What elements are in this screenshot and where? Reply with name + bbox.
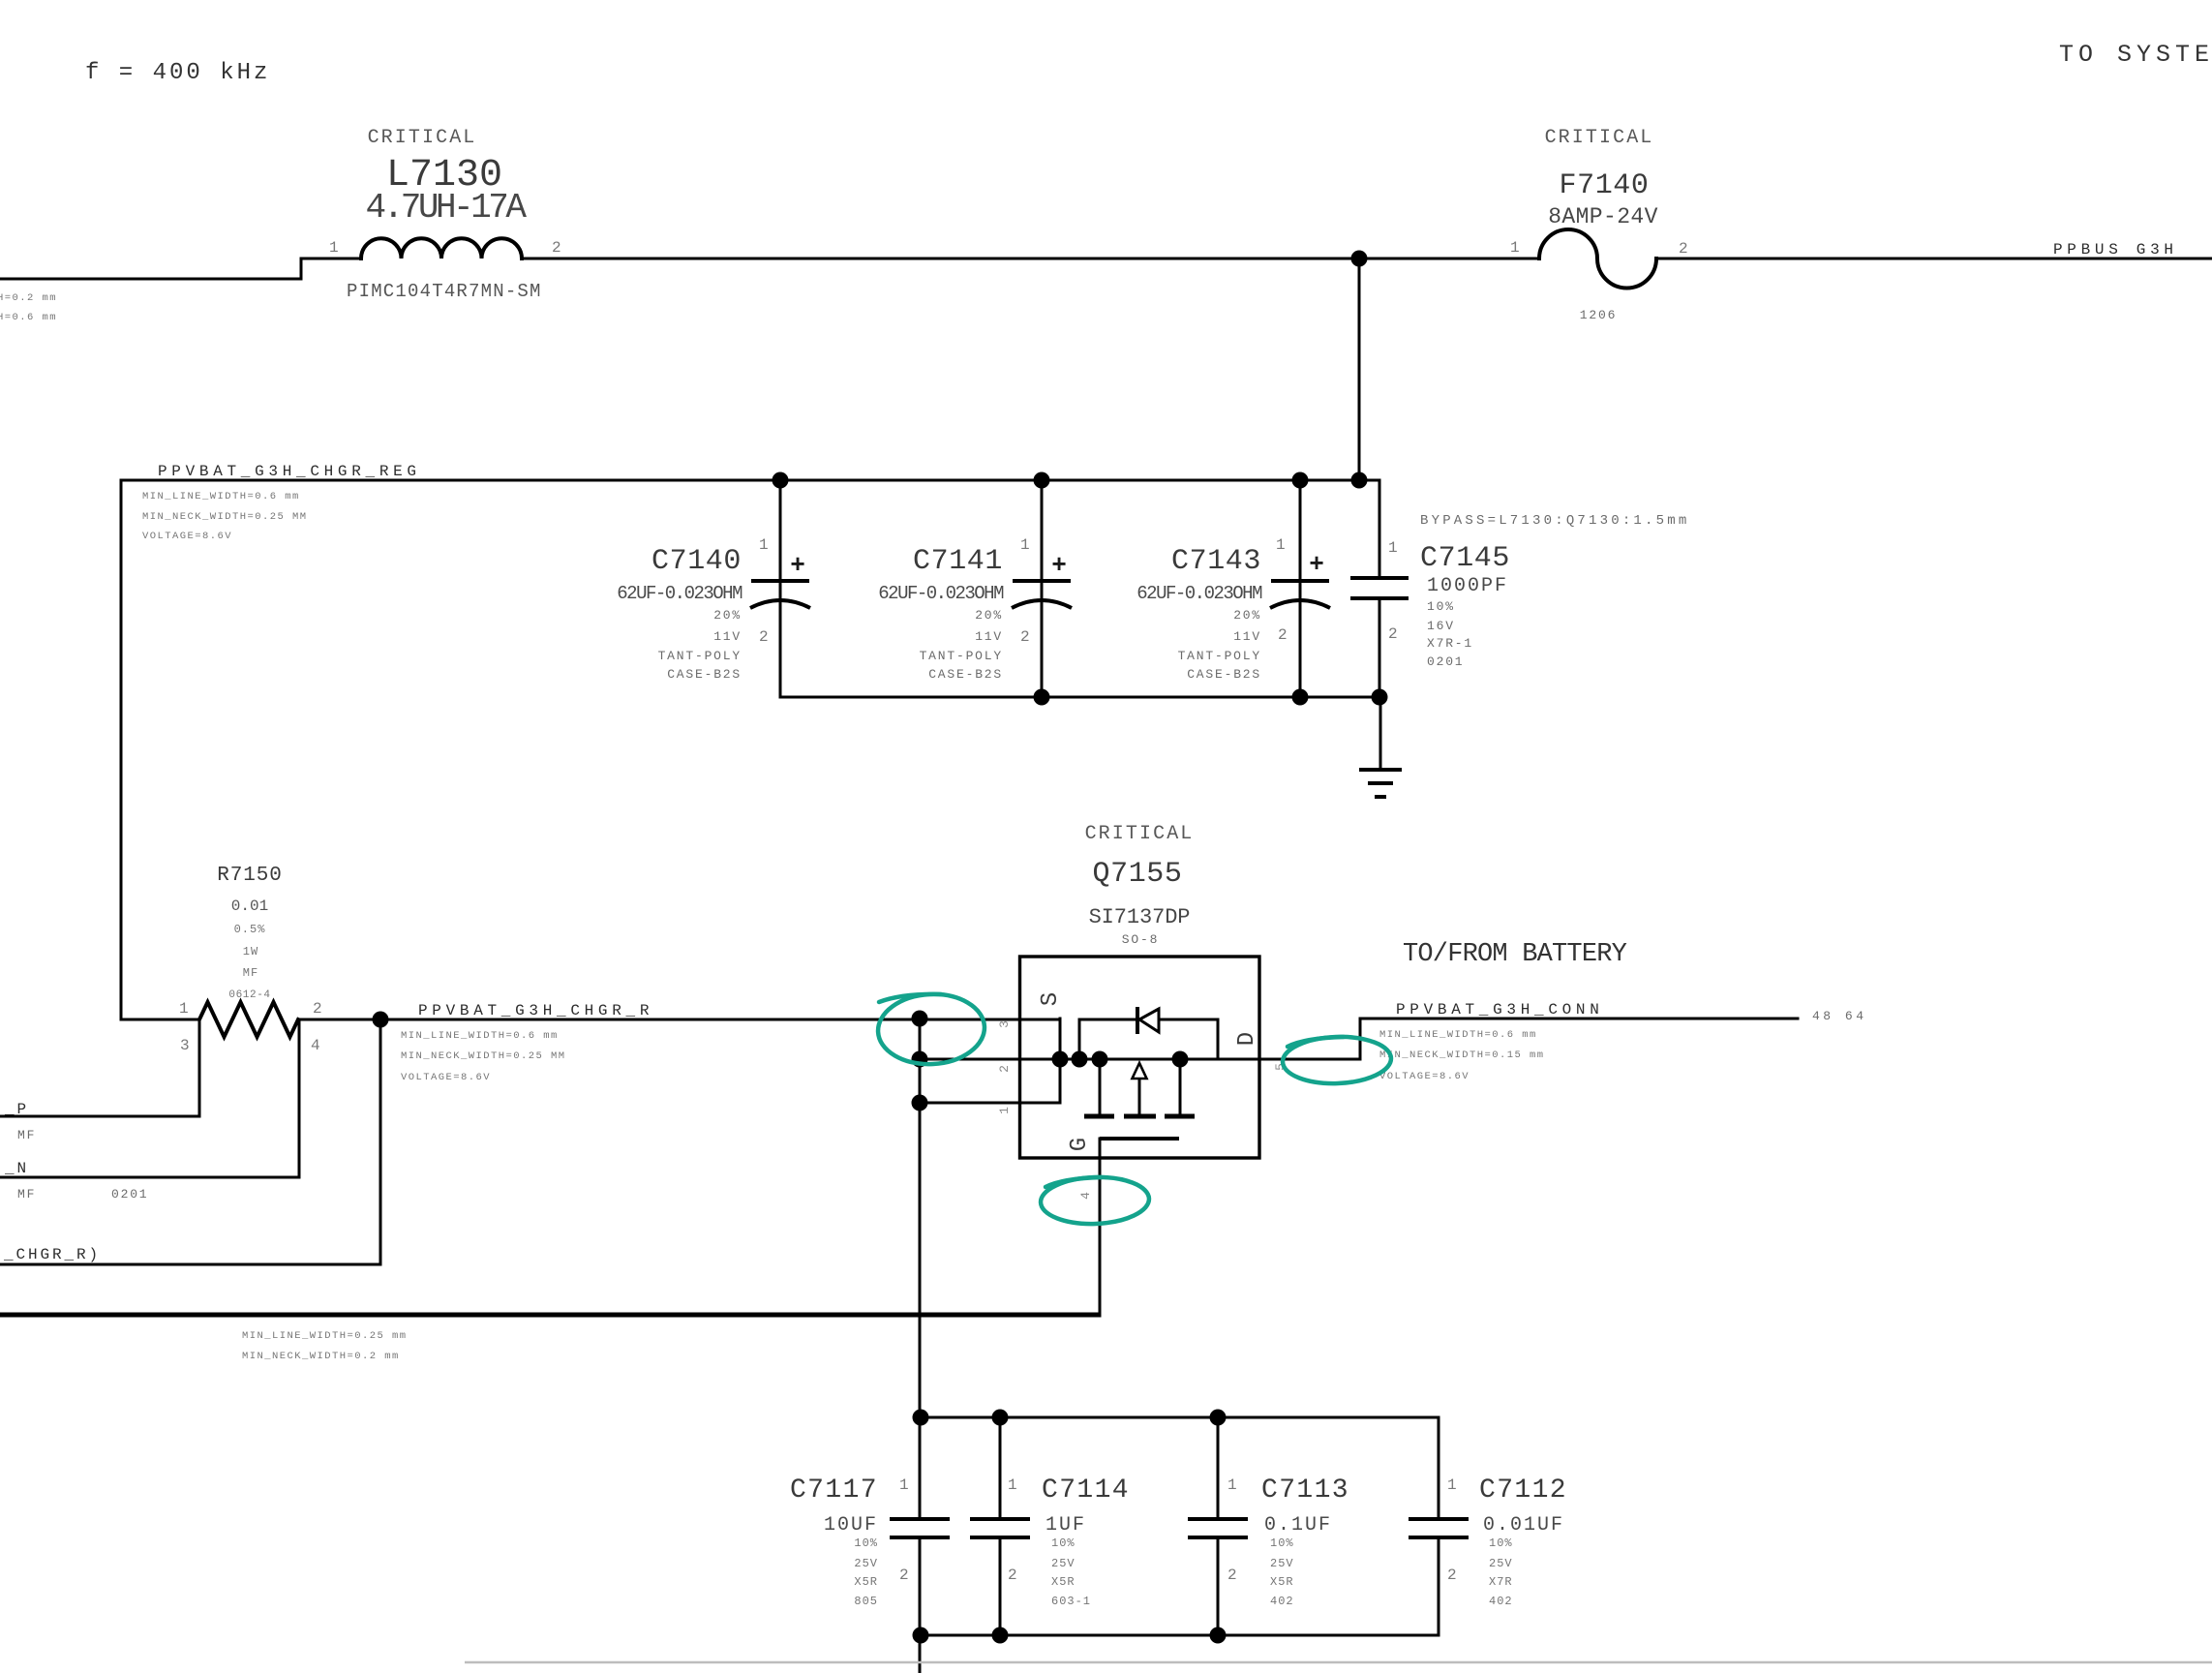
svg-text:402: 402	[1489, 1595, 1513, 1608]
svg-text:11V: 11V	[1233, 629, 1261, 644]
junction bottom bus C7114	[992, 1627, 1009, 1644]
svg-text:1: 1	[1276, 536, 1286, 554]
svg-text:TANT-POLY: TANT-POLY	[1178, 649, 1261, 663]
R7150 pin 2	[313, 1000, 322, 1018]
F7140 pin 1	[1510, 239, 1520, 257]
net label _P (cut off)	[4, 1101, 29, 1118]
C7113 value block	[1264, 1514, 1332, 1608]
wire: left input to L7130 pin 1	[0, 259, 361, 279]
svg-text:CASE-B2S: CASE-B2S	[667, 667, 742, 682]
svg-text:C7140: C7140	[651, 545, 742, 578]
svg-text:0612-4: 0612-4	[228, 989, 270, 1001]
R7150 pin 1	[179, 1000, 189, 1018]
svg-text:VOLTAGE=8.6V: VOLTAGE=8.6V	[1379, 1071, 1470, 1082]
C7141 value block	[878, 583, 1004, 682]
L7130 pin 2	[552, 239, 561, 257]
wire: thick gate net to left edge	[0, 1313, 1100, 1318]
svg-text:2: 2	[899, 1567, 909, 1584]
svg-text:10%: 10%	[1427, 599, 1455, 614]
F7140 footprint 1206	[1580, 308, 1617, 322]
svg-text:BYPASS=L7130:Q7130:1.5mm: BYPASS=L7130:Q7130:1.5mm	[1420, 513, 1689, 529]
svg-text:4: 4	[311, 1037, 320, 1054]
svg-text:603-1: 603-1	[1051, 1595, 1091, 1608]
wire: F7140 pin 2 to PPBUS_G3H off-page	[1656, 258, 2212, 260]
C7117 pin 2	[899, 1567, 909, 1584]
Q7155 body diode symbol	[1137, 1007, 1159, 1034]
C7113 pin 1	[1227, 1476, 1237, 1494]
svg-text:X5R: X5R	[854, 1575, 878, 1589]
wire: bottom capacitor top bus	[921, 1416, 1439, 1419]
svg-text:+: +	[790, 551, 805, 580]
C7145 pin 2	[1388, 625, 1398, 643]
svg-text:C7114: C7114	[1042, 1475, 1130, 1506]
svg-text:1: 1	[1510, 239, 1520, 257]
svg-text:0.5%: 0.5%	[234, 923, 266, 936]
wire: bus left drop to R7150	[120, 480, 123, 1019]
capacitor C7140	[750, 480, 810, 697]
svg-text:Q7155: Q7155	[1092, 858, 1182, 891]
svg-text:8AMP-24V: 8AMP-24V	[1548, 204, 1658, 229]
L7130 value 4.7UH-17A	[366, 188, 528, 228]
svg-text:C7145: C7145	[1420, 542, 1510, 575]
Q7155 MOSFET symbol	[1084, 1059, 1195, 1139]
svg-text:2: 2	[313, 1000, 322, 1018]
C7114 refdes	[1042, 1475, 1130, 1506]
svg-text:2: 2	[1679, 240, 1688, 258]
wire: Q7155 pin 2 feed	[920, 1058, 1360, 1061]
F7140 label CRITICAL	[1545, 127, 1654, 149]
svg-text:MIN_NECK_WIDTH=0.2 mm: MIN_NECK_WIDTH=0.2 mm	[242, 1351, 400, 1362]
Q7155 part SI7137DP	[1089, 905, 1191, 929]
wire: CHGR_R branch down and left	[0, 1019, 380, 1264]
svg-text:62UF-0.023OHM: 62UF-0.023OHM	[1136, 583, 1262, 604]
svg-text:25V: 25V	[1489, 1557, 1513, 1570]
net property notes	[142, 491, 308, 542]
Q7155 pin 4	[1078, 1192, 1093, 1200]
svg-text:805: 805	[854, 1595, 878, 1608]
svg-text:20%: 20%	[713, 608, 742, 623]
svg-text:PIMC104T4R7MN-SM: PIMC104T4R7MN-SM	[347, 281, 542, 302]
svg-text:CRITICAL: CRITICAL	[1085, 823, 1195, 845]
svg-text:48 64: 48 64	[1812, 1009, 1867, 1023]
svg-text:_P: _P	[4, 1101, 29, 1118]
svg-text:2: 2	[1008, 1567, 1017, 1584]
wire: R7150 pin 4 sense drop	[0, 1019, 299, 1177]
svg-text:2: 2	[997, 1065, 1012, 1073]
F7140 refdes	[1559, 169, 1649, 202]
junction Q7155 pin 3 tap	[912, 1011, 928, 1027]
svg-text:1: 1	[1008, 1476, 1017, 1494]
resistor R7150	[121, 1002, 380, 1037]
C7141 refdes	[913, 545, 1003, 578]
svg-text:402: 402	[1270, 1595, 1294, 1608]
wire: PPVBAT_G3H_CHGR_R to Q7155 source pins	[380, 1019, 1060, 1021]
junction bottom bus C7117	[913, 1627, 929, 1644]
svg-text:_N: _N	[4, 1160, 29, 1177]
capacitor C7145	[1350, 480, 1409, 697]
C7117 refdes	[790, 1475, 878, 1506]
R7150 refdes	[217, 865, 283, 887]
Q7155 S terminal label	[1038, 992, 1064, 1006]
F7140 pin 2	[1679, 240, 1688, 258]
svg-text:MIN_LINE_WIDTH=0.6 mm: MIN_LINE_WIDTH=0.6 mm	[142, 491, 300, 502]
capacitor C7117	[890, 1519, 950, 1537]
note MIN_LINE_WIDTH cut-off left edge	[0, 292, 57, 323]
svg-text:3: 3	[180, 1037, 190, 1054]
transistor Q7155 body box	[1020, 957, 1260, 1158]
svg-text:3: 3	[997, 1020, 1012, 1028]
svg-text:TANT-POLY: TANT-POLY	[920, 649, 1003, 663]
svg-text:0.01UF: 0.01UF	[1483, 1514, 1564, 1536]
svg-text:1UF: 1UF	[1045, 1514, 1086, 1536]
svg-text:1: 1	[997, 1107, 1012, 1114]
svg-text:PPVBAT_G3H_CONN: PPVBAT_G3H_CONN	[1396, 1001, 1604, 1019]
svg-text:CRITICAL: CRITICAL	[1545, 127, 1654, 149]
L7130 label CRITICAL	[368, 127, 477, 149]
C7117 pin 1	[899, 1476, 909, 1494]
junction Q7155 pin 1 tap	[912, 1095, 928, 1111]
Q7155 pin 3	[997, 1020, 1012, 1028]
Q7155 body diode branch	[1079, 1019, 1218, 1059]
C7145 value block	[1427, 575, 1508, 669]
note TO/FROM BATTERY	[1403, 940, 1627, 969]
annotation ellipse on drain pin 5	[1282, 1035, 1392, 1085]
svg-text:10%: 10%	[854, 1536, 878, 1550]
svg-text:1206: 1206	[1580, 308, 1617, 322]
svg-text:1000PF: 1000PF	[1427, 575, 1508, 597]
C7145 pin 1	[1388, 539, 1398, 557]
junction on bus at C7143	[1292, 472, 1309, 489]
svg-text:4.7UH-17A: 4.7UH-17A	[366, 188, 528, 228]
svg-text:TO SYSTEM: TO SYSTEM	[2059, 41, 2212, 69]
C7145 bypass note	[1420, 513, 1689, 529]
svg-text:SI7137DP: SI7137DP	[1089, 905, 1191, 929]
C7112 pin 1	[1447, 1476, 1457, 1494]
net label _N (cut off)	[4, 1160, 29, 1177]
svg-text:C7117: C7117	[790, 1475, 878, 1506]
C7143 refdes	[1171, 545, 1261, 578]
junction pin3 vertical tap	[1052, 1051, 1069, 1068]
svg-text:20%: 20%	[1233, 608, 1261, 623]
svg-text:MF: MF	[243, 966, 258, 980]
svg-text:62UF-0.023OHM: 62UF-0.023OHM	[878, 583, 1004, 604]
svg-text:D: D	[1234, 1032, 1260, 1046]
svg-text:0.1UF: 0.1UF	[1264, 1514, 1332, 1536]
L7130 pin 1	[329, 239, 339, 257]
svg-text:25V: 25V	[1051, 1557, 1076, 1570]
junction bottom bus C7113	[1210, 1627, 1227, 1644]
svg-text:1: 1	[1227, 1476, 1237, 1494]
Q7155 refdes	[1092, 858, 1182, 891]
net label PPVBAT_G3H_CHGR_REG	[158, 463, 421, 480]
svg-text:MIN_NECK_WIDTH=0.25 MM: MIN_NECK_WIDTH=0.25 MM	[401, 1050, 566, 1062]
svg-text:CASE-B2S: CASE-B2S	[1187, 667, 1261, 682]
svg-text:R7150: R7150	[217, 865, 283, 887]
net property notes	[401, 1030, 566, 1083]
svg-text:MIN_LINE_WIDTH=0.6 mm: MIN_LINE_WIDTH=0.6 mm	[401, 1030, 559, 1042]
F7140 value 8AMP-24V	[1548, 204, 1658, 229]
svg-text:TANT-POLY: TANT-POLY	[658, 649, 742, 663]
C7114 value block	[1045, 1514, 1091, 1608]
wire: drain step up to PPVBAT_G3H_CONN	[1360, 1019, 1798, 1059]
junction on bus at F7140 drop	[1351, 472, 1368, 489]
ground	[1359, 697, 1402, 797]
svg-text:C7113: C7113	[1261, 1475, 1349, 1506]
svg-text:F7140: F7140	[1559, 169, 1649, 202]
capacitor C7112	[1409, 1417, 1469, 1635]
junction FET source leg	[1092, 1051, 1108, 1068]
capacitor C7143	[1270, 480, 1330, 697]
wire: R7150 pin 3 sense drop	[0, 1019, 199, 1116]
svg-text:MIN_NECK_WIDTH=0.25 MM: MIN_NECK_WIDTH=0.25 MM	[142, 511, 308, 523]
svg-text:H=0.6 mm: H=0.6 mm	[0, 312, 57, 323]
Q7155 pin 2	[997, 1065, 1012, 1073]
wire: source pins bus down to C7117	[919, 1019, 922, 1519]
svg-text:C7143: C7143	[1171, 545, 1261, 578]
svg-text:1: 1	[759, 536, 769, 554]
net property notes	[1379, 1029, 1545, 1082]
svg-text:20%: 20%	[975, 608, 1003, 623]
svg-text:G: G	[1067, 1138, 1093, 1151]
net label PPVBAT_G3H_CONN	[1396, 1001, 1604, 1019]
svg-text:PPVBAT_G3H_CHGR_R: PPVBAT_G3H_CHGR_R	[418, 1002, 653, 1019]
svg-text:X5R: X5R	[1051, 1575, 1076, 1589]
C7143 polarity +	[1309, 550, 1324, 579]
svg-text:0201: 0201	[111, 1187, 148, 1202]
C7145 refdes	[1420, 542, 1510, 575]
capacitor C7141	[1012, 480, 1072, 697]
svg-text:0.01: 0.01	[231, 897, 268, 915]
svg-text:MIN_LINE_WIDTH=0.25 mm: MIN_LINE_WIDTH=0.25 mm	[242, 1330, 408, 1342]
net label _CHGR_R) (cut off)	[3, 1246, 101, 1263]
note MF 0201	[17, 1187, 148, 1202]
note f = 400 kHz	[85, 60, 270, 86]
Q7155 D terminal label	[1234, 1032, 1260, 1046]
svg-text:+: +	[1309, 550, 1324, 579]
C7141 pin 2	[1020, 628, 1030, 646]
svg-text:10%: 10%	[1489, 1536, 1513, 1550]
svg-text:2: 2	[1447, 1567, 1457, 1584]
wire: capacitor bottom bus	[780, 696, 1379, 699]
C7114 pin 2	[1008, 1567, 1017, 1584]
junction bottom bus C7143	[1292, 689, 1309, 706]
junction node on PPBUS wire	[1351, 251, 1368, 267]
svg-text:11V: 11V	[975, 629, 1003, 644]
svg-text:2: 2	[1020, 628, 1030, 646]
svg-text:1: 1	[1447, 1476, 1457, 1494]
fuse F7140	[1539, 229, 1656, 289]
svg-text:SO-8: SO-8	[1122, 932, 1159, 947]
junction top bus C7117	[913, 1410, 929, 1426]
wire: Q7155 gate pin 4 drop	[1099, 1139, 1102, 1316]
svg-text:2: 2	[1278, 626, 1288, 644]
svg-text:MIN_LINE_WIDTH=0.6 mm: MIN_LINE_WIDTH=0.6 mm	[1379, 1029, 1537, 1041]
junction top bus C7114	[992, 1410, 1009, 1426]
svg-text:_CHGR_R): _CHGR_R)	[3, 1246, 101, 1263]
svg-text:VOLTAGE=8.6V: VOLTAGE=8.6V	[142, 531, 232, 542]
R7150 pin 4	[311, 1037, 320, 1054]
junction bottom bus C7141	[1034, 689, 1050, 706]
annotation ellipse on source junction	[876, 991, 986, 1067]
C7140 polarity +	[790, 551, 805, 580]
wire: C7117 stem continues off bottom edge	[919, 1537, 922, 1673]
svg-text:1: 1	[899, 1476, 909, 1494]
junction at CHGR_R node	[373, 1012, 389, 1028]
L7130 part number PIMC104T4R7MN-SM	[347, 281, 542, 302]
C7112 value block	[1483, 1514, 1564, 1608]
junction diode anode tap	[1072, 1051, 1088, 1068]
svg-text:MIN_NECK_WIDTH=0.15 mm: MIN_NECK_WIDTH=0.15 mm	[1379, 1049, 1545, 1061]
C7143 pin 1	[1276, 536, 1286, 554]
R7150 pin 3	[180, 1037, 190, 1054]
C7113 pin 2	[1227, 1567, 1237, 1584]
svg-text:S: S	[1038, 992, 1064, 1006]
svg-text:CRITICAL: CRITICAL	[368, 127, 477, 149]
C7141 polarity +	[1051, 551, 1067, 580]
sheet reference 48 64	[1812, 1009, 1867, 1023]
R7150 value block	[228, 897, 270, 1001]
Q7155 G terminal label	[1067, 1138, 1093, 1151]
wire: L7130 pin 2 to F7140 pin 1	[522, 258, 1539, 260]
svg-text:X7R: X7R	[1489, 1575, 1513, 1589]
svg-text:62UF-0.023OHM: 62UF-0.023OHM	[617, 583, 742, 604]
svg-text:10UF: 10UF	[824, 1514, 878, 1536]
svg-text:MF: MF	[17, 1128, 36, 1142]
svg-text:1: 1	[329, 239, 339, 257]
svg-text:TO/FROM BATTERY: TO/FROM BATTERY	[1403, 940, 1627, 969]
wire: Q7155 pin 1 feed	[920, 1019, 1060, 1103]
svg-text:2: 2	[1388, 625, 1398, 643]
svg-text:PPVBAT_G3H_CHGR_REG: PPVBAT_G3H_CHGR_REG	[158, 463, 421, 480]
svg-text:25V: 25V	[854, 1557, 878, 1570]
svg-text:2: 2	[759, 628, 769, 646]
C7117 value block	[824, 1514, 878, 1608]
Q7155 label CRITICAL	[1085, 823, 1195, 845]
svg-text:1: 1	[179, 1000, 189, 1018]
junction Q7155 pin 2 tap	[912, 1051, 928, 1068]
svg-text:1: 1	[1020, 536, 1030, 554]
L7130 refdes	[386, 154, 502, 198]
C7113 refdes	[1261, 1475, 1349, 1506]
gate net property notes	[242, 1330, 408, 1362]
note TO SYSTEM	[2059, 41, 2212, 69]
sheet boundary line (light)	[465, 1661, 2212, 1664]
svg-text:VOLTAGE=8.6V: VOLTAGE=8.6V	[401, 1072, 491, 1083]
junction on bus at C7140	[773, 472, 789, 489]
svg-text:1: 1	[1388, 539, 1398, 557]
svg-text:25V: 25V	[1270, 1557, 1294, 1570]
svg-text:+: +	[1051, 551, 1067, 580]
svg-text:H=0.2 mm: H=0.2 mm	[0, 292, 57, 304]
C7140 refdes	[651, 545, 742, 578]
capacitor C7114	[970, 1417, 1030, 1635]
svg-text:2: 2	[1227, 1567, 1237, 1584]
C7143 pin 2	[1278, 626, 1288, 644]
svg-text:PPBUS G3H: PPBUS G3H	[2053, 241, 2178, 259]
junction FET drain leg	[1172, 1051, 1189, 1068]
net label PPBUS G3H	[2053, 241, 2178, 259]
inductor L7130	[361, 238, 522, 259]
svg-text:2: 2	[552, 239, 561, 257]
junction top bus C7113	[1210, 1410, 1227, 1426]
svg-text:16V: 16V	[1427, 619, 1455, 633]
svg-text:C7141: C7141	[913, 545, 1003, 578]
svg-text:C7112: C7112	[1479, 1475, 1567, 1506]
Q7155 package SO-8	[1122, 932, 1159, 947]
annotation ellipse on gate pin 4	[1040, 1175, 1150, 1226]
svg-text:f = 400 kHz: f = 400 kHz	[85, 60, 270, 86]
C7112 pin 2	[1447, 1567, 1457, 1584]
capacitor C7113	[1188, 1417, 1248, 1635]
svg-text:10%: 10%	[1051, 1536, 1076, 1550]
svg-text:MF: MF	[17, 1187, 36, 1202]
C7140 pin 2	[759, 628, 769, 646]
svg-text:1W: 1W	[243, 945, 258, 958]
Q7155 pin 5	[1273, 1063, 1288, 1071]
svg-text:X7R-1: X7R-1	[1427, 636, 1473, 651]
wire: junction drop to PPVBAT_G3H_CHGR_REG bus	[1358, 259, 1361, 480]
svg-text:4: 4	[1078, 1192, 1093, 1200]
C7140 pin 1	[759, 536, 769, 554]
C7140 value block	[617, 583, 742, 682]
junction bottom bus C7145	[1372, 689, 1388, 706]
svg-text:11V: 11V	[713, 629, 742, 644]
svg-text:0201: 0201	[1427, 654, 1464, 669]
net label PPVBAT_G3H_CHGR_R	[418, 1002, 653, 1019]
C7114 pin 1	[1008, 1476, 1017, 1494]
junction on bus at C7141	[1034, 472, 1050, 489]
Q7155 pin 1	[997, 1107, 1012, 1114]
wire: PPVBAT_G3H_CHGR_REG bus	[121, 479, 1379, 482]
wire: bottom capacitor bottom bus	[921, 1634, 1439, 1637]
C7141 pin 1	[1020, 536, 1030, 554]
svg-text:10%: 10%	[1270, 1536, 1294, 1550]
C7143 value block	[1136, 583, 1262, 682]
svg-text:CASE-B2S: CASE-B2S	[928, 667, 1003, 682]
note MF	[17, 1128, 36, 1142]
svg-text:X5R: X5R	[1270, 1575, 1294, 1589]
C7112 refdes	[1479, 1475, 1567, 1506]
